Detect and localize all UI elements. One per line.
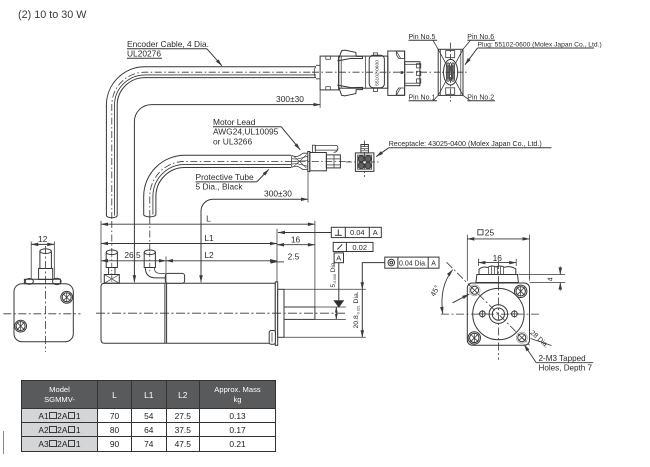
svg-text:0.04: 0.04	[350, 228, 365, 237]
svg-text:300±30: 300±30	[264, 189, 292, 199]
svg-text:L1: L1	[204, 233, 214, 243]
svg-text:28 Dia.: 28 Dia.	[528, 329, 549, 349]
svg-text:UL20276: UL20276	[127, 49, 161, 59]
svg-text:Pin No.5: Pin No.5	[409, 34, 436, 41]
svg-text:Encoder Cable, 4 Dia.: Encoder Cable, 4 Dia.	[127, 39, 209, 49]
svg-text:0.02: 0.02	[352, 243, 367, 252]
svg-text:or UL3266: or UL3266	[213, 136, 252, 146]
svg-text:2.5: 2.5	[288, 252, 300, 262]
svg-text:25: 25	[485, 227, 495, 237]
svg-text:45°: 45°	[428, 284, 441, 298]
svg-text:2-M3 Tapped: 2-M3 Tapped	[539, 354, 586, 363]
svg-text:Pin No.2: Pin No.2	[467, 94, 494, 101]
svg-text:4: 4	[547, 277, 554, 281]
svg-text:Plug: 55102-0600 (Molex Japan: Plug: 55102-0600 (Molex Japan Co., Ltd.)	[478, 41, 602, 48]
svg-text:Motor Lead: Motor Lead	[213, 117, 256, 127]
svg-text:5 Dia., Black: 5 Dia., Black	[196, 182, 244, 192]
svg-text:Holes, Depth 7: Holes, Depth 7	[539, 363, 593, 372]
svg-text:26.5: 26.5	[124, 250, 141, 260]
svg-text:Pin No.1: Pin No.1	[409, 94, 436, 101]
svg-text:L: L	[206, 214, 211, 224]
svg-text:20.8-0.021 Dia.: 20.8-0.021 Dia.	[353, 291, 360, 328]
svg-text:16: 16	[291, 234, 301, 244]
svg-text:Receptacle: 43025-0400 (Molex: Receptacle: 43025-0400 (Molex Japan Co.,…	[389, 140, 542, 148]
svg-text:5-0.008 Dia.: 5-0.008 Dia.	[330, 261, 337, 288]
svg-text:16: 16	[493, 253, 503, 263]
svg-text:A: A	[431, 261, 436, 268]
svg-text:A: A	[336, 254, 341, 263]
svg-text:A: A	[373, 228, 378, 237]
svg-text:0.04 Dia.: 0.04 Dia.	[399, 261, 427, 268]
svg-text:Protective Tube: Protective Tube	[196, 172, 255, 182]
svg-text:Pin No.6: Pin No.6	[467, 34, 494, 41]
svg-text:L2: L2	[204, 250, 214, 260]
svg-text:AWG24,UL10095: AWG24,UL10095	[213, 127, 279, 137]
svg-text:300±30: 300±30	[276, 94, 304, 104]
svg-text:12: 12	[38, 234, 48, 244]
svg-text:55102-0600: 55102-0600	[375, 60, 381, 86]
